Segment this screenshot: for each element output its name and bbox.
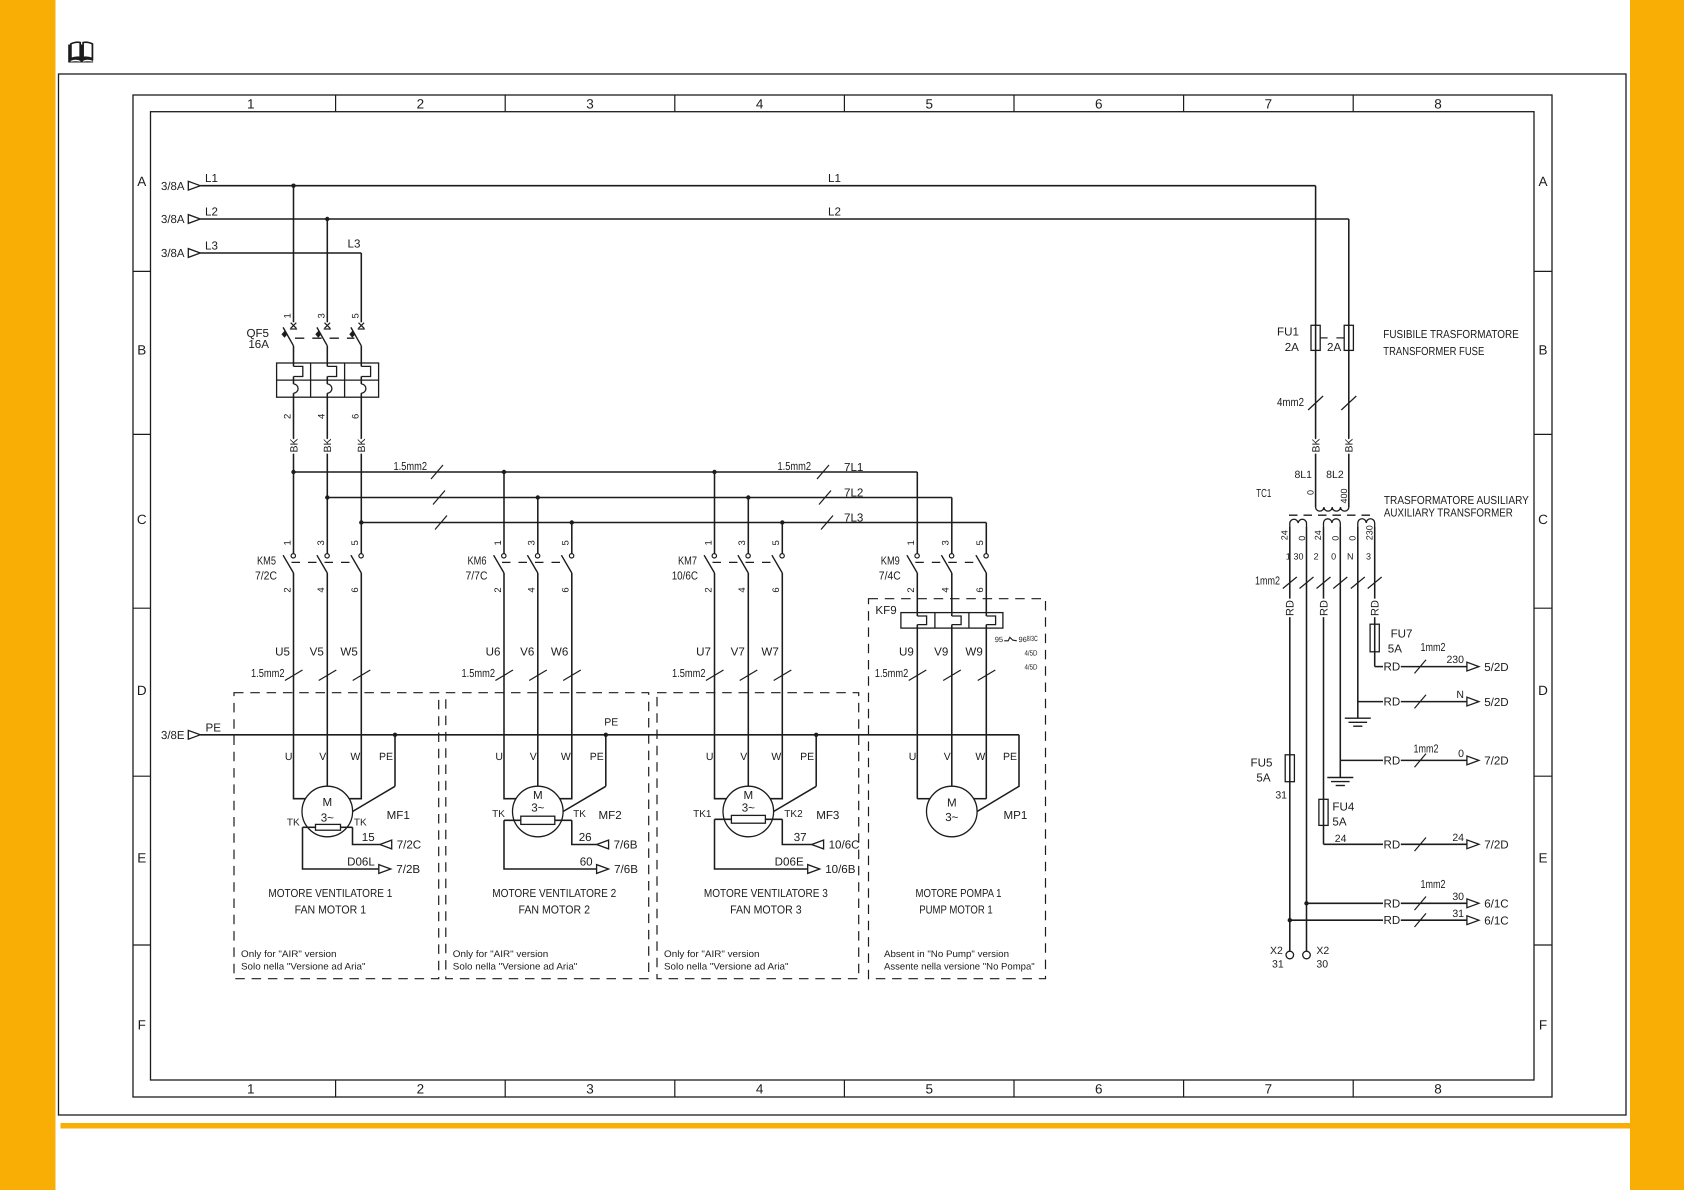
- junction PE branch: [393, 733, 397, 737]
- TK stub left: [504, 819, 521, 821]
- svg-text:RD: RD: [1384, 838, 1401, 851]
- svg-text:1: 1: [247, 96, 255, 111]
- svg-text:RD: RD: [1384, 696, 1401, 709]
- svg-text:5: 5: [925, 96, 933, 111]
- svg-text:96: 96: [1019, 635, 1027, 644]
- svg-text:L1: L1: [205, 172, 218, 185]
- svg-text:N: N: [1456, 689, 1464, 701]
- svg-text:U: U: [706, 751, 714, 763]
- svg-text:2A: 2A: [1285, 341, 1299, 354]
- svg-text:Solo nella "Versione ad Aria": Solo nella "Versione ad Aria": [453, 962, 578, 973]
- sheet reference arrow: [1467, 899, 1479, 908]
- svg-text:V: V: [530, 751, 537, 763]
- svg-text:M: M: [947, 797, 957, 810]
- svg-text:1: 1: [247, 1082, 255, 1097]
- sheet reference arrow: [812, 840, 824, 849]
- wire V into motor: [326, 573, 328, 786]
- overload thermal element: [294, 384, 299, 393]
- svg-text:FAN MOTOR 2: FAN MOTOR 2: [519, 904, 591, 917]
- right orange sidebar: [1630, 0, 1684, 1190]
- svg-text:1.5mm2: 1.5mm2: [251, 667, 285, 680]
- svg-text:24: 24: [1452, 832, 1464, 844]
- svg-text:U: U: [495, 751, 503, 763]
- svg-text:W6: W6: [551, 646, 568, 659]
- svg-text:7: 7: [1265, 96, 1273, 111]
- svg-text:W: W: [561, 751, 571, 763]
- svg-text:15: 15: [362, 831, 375, 844]
- svg-text:3: 3: [316, 313, 327, 318]
- svg-text:30: 30: [1293, 552, 1303, 562]
- svg-text:FAN MOTOR 1: FAN MOTOR 1: [295, 904, 367, 917]
- svg-text:V9: V9: [934, 646, 948, 659]
- junction PE branch: [814, 733, 818, 737]
- svg-text:U: U: [909, 751, 917, 763]
- svg-text:RD: RD: [1370, 600, 1382, 616]
- wire bus to KM5 pole 3: [325, 495, 329, 499]
- svg-text:TK1: TK1: [693, 809, 712, 820]
- svg-text:7/2D: 7/2D: [1484, 839, 1509, 852]
- row dividers right band: [1534, 270, 1552, 272]
- svg-text:F: F: [1539, 1018, 1547, 1033]
- svg-text:MOTORE VENTILATORE 1: MOTORE VENTILATORE 1: [268, 887, 392, 900]
- wire FU1 to TC1 (left) BK: [1315, 350, 1317, 507]
- svg-text:D: D: [137, 683, 147, 698]
- svg-text:PE: PE: [604, 717, 618, 729]
- thermal contact TK rectangle: [731, 815, 765, 823]
- svg-text:A: A: [137, 174, 146, 189]
- svg-text:MP1: MP1: [1004, 809, 1028, 822]
- svg-text:RD: RD: [1384, 661, 1401, 674]
- svg-text:4: 4: [316, 414, 327, 419]
- FU1 link: [1320, 337, 1327, 339]
- overload thermal element: [361, 384, 366, 393]
- svg-text:0: 0: [1330, 536, 1340, 541]
- svg-text:31: 31: [1272, 959, 1284, 971]
- dashed enclosure FAN MOTOR 3: [657, 693, 859, 979]
- wire QF5 pole 5 to overload: [360, 346, 362, 367]
- wire U into motor: [715, 573, 727, 799]
- inner drawing frame: [151, 112, 1535, 1080]
- svg-text:W: W: [350, 751, 360, 763]
- wire U into motor: [294, 573, 306, 799]
- svg-text:7/6B: 7/6B: [614, 839, 638, 852]
- svg-text:5/2D: 5/2D: [1484, 661, 1509, 674]
- svg-text:2: 2: [417, 96, 425, 111]
- svg-text:E: E: [1538, 851, 1547, 866]
- sheet reference arrow: [380, 840, 392, 849]
- svg-text:Solo nella "Versione ad Aria": Solo nella "Versione ad Aria": [664, 962, 789, 973]
- svg-text:2: 2: [703, 587, 714, 592]
- svg-text:1: 1: [703, 540, 714, 545]
- overload block QF5 outline: [277, 363, 379, 397]
- reference band frame: [133, 95, 1552, 1097]
- svg-text:30: 30: [1316, 959, 1328, 971]
- svg-text:B: B: [1538, 343, 1547, 358]
- row dividers left band: [133, 270, 151, 272]
- wire TK right to sheet ref: [572, 820, 597, 844]
- svg-text:2: 2: [906, 587, 917, 592]
- svg-text:7/4C: 7/4C: [879, 569, 901, 582]
- wire bus to KM6 pole 3: [536, 495, 540, 499]
- svg-text:230: 230: [1446, 654, 1464, 666]
- svg-text:PE: PE: [800, 751, 814, 763]
- svg-text:MF1: MF1: [387, 809, 410, 822]
- svg-text:2: 2: [417, 1082, 425, 1097]
- svg-text:4: 4: [756, 1082, 764, 1097]
- thermal contact TK rectangle: [521, 816, 555, 824]
- wire QF5 pole 3 to overload: [326, 346, 328, 367]
- wire BK breaker to bus: [360, 397, 362, 522]
- svg-text:D06E: D06E: [775, 855, 804, 868]
- svg-text:PE: PE: [1003, 751, 1017, 763]
- junction L2 to QF5: [325, 217, 329, 221]
- bus 7L3: [361, 522, 986, 524]
- wire PE drop: [815, 735, 817, 787]
- svg-text:L3: L3: [205, 239, 218, 252]
- fuse FU1 2A (left): [1311, 325, 1320, 350]
- svg-text:6: 6: [561, 587, 572, 592]
- svg-text:KM5: KM5: [257, 554, 276, 567]
- svg-text:8L1: 8L1: [1294, 469, 1312, 481]
- svg-text:7/6B: 7/6B: [614, 863, 638, 876]
- left orange sidebar: [0, 0, 56, 1190]
- wire bus to KM9 pole 3: [951, 498, 953, 554]
- wire sec2 24V RD to FU4: [1323, 527, 1325, 799]
- wire TK left to sheet ref: [303, 827, 379, 869]
- wire bus to KM5 pole 5: [359, 520, 363, 524]
- svg-text:RD: RD: [1318, 600, 1330, 616]
- motor MP1: [927, 786, 978, 837]
- svg-text:1: 1: [906, 540, 917, 545]
- wire BK breaker to bus: [326, 397, 328, 497]
- terminal X2:30: [1303, 951, 1311, 959]
- TK stub right: [341, 826, 353, 828]
- svg-text:1.5mm2: 1.5mm2: [462, 667, 496, 680]
- svg-text:31: 31: [1452, 908, 1464, 920]
- wire TK left to sheet ref: [504, 820, 597, 869]
- svg-text:FU5: FU5: [1250, 757, 1272, 770]
- fuse FU4 5A: [1319, 799, 1328, 825]
- svg-text:C: C: [1538, 512, 1548, 527]
- bus 7L1: [294, 471, 918, 473]
- wire sec3 N to ground: [1357, 527, 1359, 718]
- svg-text:7/2C: 7/2C: [397, 839, 422, 852]
- svg-text:3/8E: 3/8E: [161, 729, 185, 742]
- svg-text:2: 2: [493, 587, 504, 592]
- junction PE branch: [604, 733, 608, 737]
- svg-text:60: 60: [580, 855, 593, 868]
- sheet reference arrow: [1467, 697, 1479, 706]
- svg-text:RD: RD: [1285, 600, 1297, 616]
- TC1 secondary winding: [1358, 519, 1375, 527]
- overload magnetic element: [361, 366, 370, 376]
- svg-text:B: B: [137, 343, 146, 358]
- svg-text:D: D: [1538, 683, 1548, 698]
- svg-text:RD: RD: [1384, 897, 1401, 910]
- svg-text:L1: L1: [828, 172, 841, 185]
- wire bus to KM6 pole 1: [502, 470, 506, 474]
- wire FU4 to 7/2D line: [1323, 825, 1325, 844]
- svg-text:2: 2: [1314, 552, 1319, 562]
- wire sec1 24V RD: [1289, 527, 1291, 755]
- wire RD to 6/1C: [1307, 902, 1384, 904]
- svg-text:7/2C: 7/2C: [255, 569, 277, 582]
- contact KM6 pole 3: [535, 554, 539, 558]
- wire sec3 230V RD to FU7: [1374, 527, 1376, 624]
- breaker QF5 pole 5 contact: [359, 323, 365, 329]
- svg-text:0: 0: [1306, 490, 1316, 495]
- wire RD to 7/2D: [1324, 843, 1384, 845]
- sheet reference arrow: [808, 865, 820, 874]
- svg-text:V6: V6: [520, 646, 534, 659]
- svg-text:1.5mm2: 1.5mm2: [394, 460, 428, 473]
- breaker QF5 pole 1 contact: [291, 323, 297, 329]
- svg-text:AUXILIARY TRANSFORMER: AUXILIARY TRANSFORMER: [1384, 506, 1513, 519]
- svg-text:M: M: [322, 796, 332, 809]
- svg-text:KM9: KM9: [881, 554, 900, 567]
- svg-text:V: V: [944, 751, 951, 763]
- KF9 magnetic element: [951, 573, 953, 616]
- svg-text:16A: 16A: [248, 338, 269, 351]
- svg-text:1.5mm2: 1.5mm2: [875, 667, 909, 680]
- svg-text:5A: 5A: [1332, 815, 1346, 828]
- sheet reference arrow: [1467, 916, 1479, 925]
- KM5 mechanical link: [292, 561, 353, 563]
- svg-text:Solo nella "Versione ad Aria": Solo nella "Versione ad Aria": [241, 962, 366, 973]
- contact KM9 pole 1: [915, 554, 919, 558]
- svg-text:MOTORE VENTILATORE 2: MOTORE VENTILATORE 2: [492, 887, 616, 900]
- svg-text:0: 0: [1458, 748, 1464, 760]
- svg-text:TK: TK: [354, 818, 367, 829]
- svg-text:1mm2: 1mm2: [1414, 742, 1439, 755]
- svg-text:W7: W7: [761, 646, 778, 659]
- svg-text:X2: X2: [1316, 945, 1329, 957]
- motor MF2: [513, 786, 564, 837]
- wire BK breaker to bus: [293, 397, 295, 472]
- svg-text:1mm2: 1mm2: [1421, 641, 1446, 654]
- svg-text:4: 4: [941, 587, 952, 592]
- svg-text:95: 95: [995, 635, 1003, 644]
- svg-text:2: 2: [282, 587, 293, 592]
- wire RD to 6/1C: [1290, 919, 1383, 921]
- svg-text:7/2D: 7/2D: [1484, 755, 1509, 768]
- contact KM9 pole 5: [984, 554, 988, 558]
- junction 30 branch: [1304, 901, 1308, 905]
- svg-text:PUMP MOTOR 1: PUMP MOTOR 1: [919, 904, 993, 917]
- svg-text:TK: TK: [287, 818, 300, 829]
- svg-text:7L1: 7L1: [844, 461, 863, 474]
- wire L2 horizontal: [200, 218, 1349, 220]
- svg-text:W: W: [975, 751, 985, 763]
- svg-text:8: 8: [1434, 1082, 1442, 1097]
- svg-text:3: 3: [1366, 552, 1371, 562]
- svg-text:8: 8: [1434, 96, 1442, 111]
- ground: [1345, 717, 1371, 719]
- svg-text:F: F: [138, 1018, 146, 1033]
- terminal X2:31: [1286, 951, 1294, 959]
- svg-text:5: 5: [350, 540, 361, 545]
- svg-text:37: 37: [794, 831, 807, 844]
- svg-text:MF3: MF3: [816, 809, 839, 822]
- wire RD to 5/2D: [1358, 701, 1383, 703]
- svg-text:BK: BK: [1344, 438, 1356, 452]
- svg-text:6/1C: 6/1C: [1484, 898, 1509, 911]
- overload magnetic element: [294, 366, 303, 376]
- TC1 core: [1289, 514, 1375, 516]
- overload magnetic element: [327, 366, 336, 376]
- svg-text:Only for "AIR" version: Only for "AIR" version: [241, 949, 337, 960]
- svg-text:7/7C: 7/7C: [466, 569, 488, 582]
- svg-text:X2: X2: [1270, 945, 1283, 957]
- dashed enclosure FAN MOTOR 1: [234, 693, 439, 979]
- contact KM7 pole 1: [712, 554, 716, 558]
- svg-text:BK: BK: [288, 438, 300, 452]
- svg-text:MOTORE POMPA 1: MOTORE POMPA 1: [916, 887, 1002, 900]
- svg-text:3/8A: 3/8A: [161, 180, 185, 193]
- svg-text:0: 0: [1348, 536, 1358, 541]
- svg-text:26: 26: [579, 831, 592, 844]
- svg-text:4: 4: [756, 96, 764, 111]
- svg-text:3: 3: [586, 1082, 594, 1097]
- thermal contact TK rectangle: [316, 824, 341, 830]
- KF9 magnetic element: [916, 573, 918, 616]
- dashed enclosure PUMP MOTOR 1: [869, 599, 1046, 979]
- svg-text:4: 4: [527, 587, 538, 592]
- wire QF5 pole 1 to overload: [293, 346, 295, 367]
- wire V into motor: [747, 573, 749, 786]
- junction L1 to QF5: [291, 184, 295, 188]
- motor MF1: [302, 786, 353, 837]
- svg-text:PE: PE: [206, 722, 222, 735]
- svg-text:Assente nella versione "No Pom: Assente nella versione "No Pompa": [884, 962, 1035, 973]
- svg-text:24: 24: [1279, 530, 1289, 540]
- svg-text:1.5mm2: 1.5mm2: [778, 460, 812, 473]
- svg-text:3/8A: 3/8A: [161, 247, 185, 260]
- svg-text:3~: 3~: [742, 802, 755, 815]
- KM9 mechanical link: [915, 561, 978, 563]
- svg-text:7L3: 7L3: [844, 512, 863, 525]
- svg-text:0: 0: [1297, 536, 1307, 541]
- bottom orange rule: [61, 1123, 1631, 1129]
- svg-text:5A: 5A: [1388, 643, 1402, 656]
- svg-text:7L2: 7L2: [844, 487, 863, 500]
- svg-text:4/5D: 4/5D: [1025, 663, 1038, 672]
- sheet reference arrow: [597, 840, 609, 849]
- svg-text:8/3C: 8/3C: [1027, 634, 1038, 643]
- svg-text:10/6C: 10/6C: [829, 839, 860, 852]
- svg-text:RD: RD: [1384, 754, 1401, 767]
- sheet reference arrow: [1467, 840, 1479, 849]
- svg-text:5: 5: [771, 540, 782, 545]
- wire PE drop: [394, 735, 396, 787]
- contact KM7 pole 5: [780, 554, 784, 558]
- svg-text:KF9: KF9: [875, 604, 896, 617]
- wire L1 drop to QF5 pole 1: [293, 186, 295, 323]
- svg-text:24: 24: [1335, 833, 1347, 845]
- svg-text:FU7: FU7: [1391, 628, 1413, 641]
- svg-text:U7: U7: [696, 646, 711, 659]
- wire L3 horizontal: [200, 252, 361, 254]
- svg-text:10/6B: 10/6B: [825, 863, 856, 876]
- svg-text:W5: W5: [340, 646, 357, 659]
- svg-text:6/1C: 6/1C: [1484, 914, 1509, 927]
- svg-text:3~: 3~: [531, 802, 544, 815]
- svg-text:BK: BK: [356, 438, 368, 452]
- svg-text:230: 230: [1364, 525, 1374, 540]
- svg-text:30: 30: [1452, 891, 1464, 903]
- svg-text:U: U: [285, 751, 293, 763]
- svg-text:3~: 3~: [945, 811, 958, 824]
- svg-text:V5: V5: [310, 646, 324, 659]
- svg-text:6: 6: [1095, 1082, 1103, 1097]
- wire bus to KM5 pole 1: [291, 470, 295, 474]
- wire RD to 5/2D: [1375, 666, 1383, 668]
- wire PE drop pump: [977, 735, 1019, 812]
- svg-text:D06L: D06L: [347, 855, 375, 868]
- svg-text:6: 6: [1095, 96, 1103, 111]
- wire L2 drop to QF5 pole 3: [326, 219, 328, 322]
- svg-text:RD: RD: [1384, 914, 1401, 927]
- TK stub left: [715, 818, 732, 820]
- svg-text:3/8A: 3/8A: [161, 213, 185, 226]
- svg-text:1mm2: 1mm2: [1255, 575, 1280, 588]
- svg-text:400: 400: [1339, 488, 1349, 503]
- wire L2 drop to FU1: [1348, 219, 1350, 325]
- wire PE drop: [605, 735, 607, 787]
- contact KM5 pole 3: [325, 554, 329, 558]
- svg-text:V: V: [740, 751, 747, 763]
- wire TK right to sheet ref: [353, 827, 380, 844]
- fuse FU1 2A (right): [1344, 325, 1353, 350]
- svg-text:1: 1: [283, 313, 294, 318]
- svg-text:TK: TK: [492, 809, 505, 820]
- TK stub right: [765, 818, 782, 820]
- wire bus to KM7 pole 5: [780, 520, 784, 524]
- svg-text:1.5mm2: 1.5mm2: [672, 667, 706, 680]
- svg-text:3: 3: [941, 540, 952, 545]
- svg-text:5/2D: 5/2D: [1484, 696, 1509, 709]
- svg-text:4: 4: [737, 587, 748, 592]
- svg-text:V7: V7: [731, 646, 745, 659]
- svg-text:2: 2: [283, 414, 294, 419]
- svg-text:1mm2: 1mm2: [1421, 878, 1446, 891]
- overload thermal element: [327, 384, 332, 393]
- TC1 primary winding: [1316, 507, 1349, 511]
- svg-text:1: 1: [282, 540, 293, 545]
- svg-text:8L2: 8L2: [1326, 469, 1344, 481]
- svg-text:Absent in "No Pump" version: Absent in "No Pump" version: [884, 949, 1009, 960]
- svg-text:W: W: [771, 751, 781, 763]
- contact KM6 pole 1: [502, 554, 506, 558]
- wire bus to KM6 pole 5: [570, 520, 574, 524]
- wire sec2 0V to ground: [1339, 527, 1341, 778]
- sheet reference arrow: [1467, 756, 1479, 765]
- svg-text:L3: L3: [348, 237, 361, 250]
- sheet reference arrow: [379, 865, 391, 874]
- svg-text:TRANSFORMER FUSE: TRANSFORMER FUSE: [1383, 345, 1484, 358]
- wire U into pump motor: [917, 798, 930, 800]
- svg-text:TK: TK: [573, 809, 586, 820]
- wire L3 drop to QF5 pole 5: [360, 253, 362, 322]
- junction 31 branch: [1288, 918, 1292, 922]
- wire PE bus: [200, 734, 1019, 736]
- svg-text:BK: BK: [322, 438, 334, 452]
- wire L1 horizontal: [200, 185, 1315, 187]
- svg-text:FAN MOTOR 3: FAN MOTOR 3: [730, 904, 802, 917]
- svg-text:3: 3: [586, 96, 594, 111]
- wire L1 drop to FU1: [1315, 186, 1317, 326]
- sheet reference arrow: [597, 865, 609, 874]
